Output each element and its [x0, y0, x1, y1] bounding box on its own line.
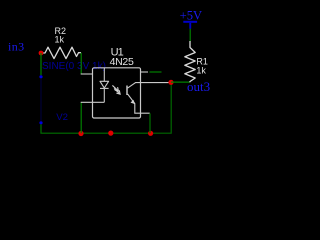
svg-text:1k: 1k [55, 34, 65, 44]
pin 1 anode stub [81, 73, 93, 75]
resistor R1 [185, 41, 195, 82]
wire R2 to anode [80, 53, 82, 74]
wire +5V to R1 [189, 29, 191, 42]
wire cathode return down to rail [80, 102, 82, 133]
voltage source V2 plus terminal dot [39, 75, 42, 78]
junction dot on rail (segment join) [108, 131, 113, 136]
svg-text:4N25: 4N25 [110, 56, 134, 68]
wire out node to R1 [171, 81, 190, 83]
light arrow 2 [114, 89, 120, 94]
wire base stub (dangling) [150, 71, 162, 73]
transistor Q (phototransistor) base bar [126, 86, 128, 96]
transistor emitter with arrow + pin 4 [128, 94, 150, 113]
light arrow 1 [113, 86, 119, 91]
node A junction dot (in3/R2/V2) [39, 51, 44, 56]
junction dot on rail at emitter [148, 131, 153, 136]
wire V2 minus to bottom rail [41, 124, 81, 133]
transistor collector lead + pin 5 line to node [128, 83, 169, 89]
LED anode lead inside U1 [103, 68, 105, 82]
LED triangle [100, 81, 109, 88]
LED cathode bar [100, 87, 109, 89]
LED cathode lead [103, 88, 105, 102]
node out junction dot [168, 80, 173, 85]
svg-text:V2: V2 [56, 112, 68, 123]
wire V2 plus stub [40, 53, 42, 75]
voltage source V2 minus terminal dot [39, 121, 42, 124]
wire bottom rail right + riser to out node [151, 82, 172, 133]
junction dot on rail at LED return [78, 131, 83, 136]
svg-text:SINE(0 3V 1k): SINE(0 3V 1k) [42, 61, 106, 72]
svg-text:1k: 1k [196, 65, 206, 75]
pin 2 cathode stub [81, 101, 105, 103]
wire emitter to rail [149, 113, 151, 133]
wire bottom rail mid [81, 132, 151, 134]
op-amp U1 body box (4N25 optocoupler) [93, 68, 141, 118]
resistor R2 [41, 47, 81, 58]
svg-text:in3: in3 [8, 40, 25, 54]
power +5V symbol [180, 9, 203, 29]
pin 6 base stub [141, 71, 149, 73]
svg-text:+5V: +5V [180, 9, 203, 23]
voltage source V2 body [40, 79, 42, 122]
